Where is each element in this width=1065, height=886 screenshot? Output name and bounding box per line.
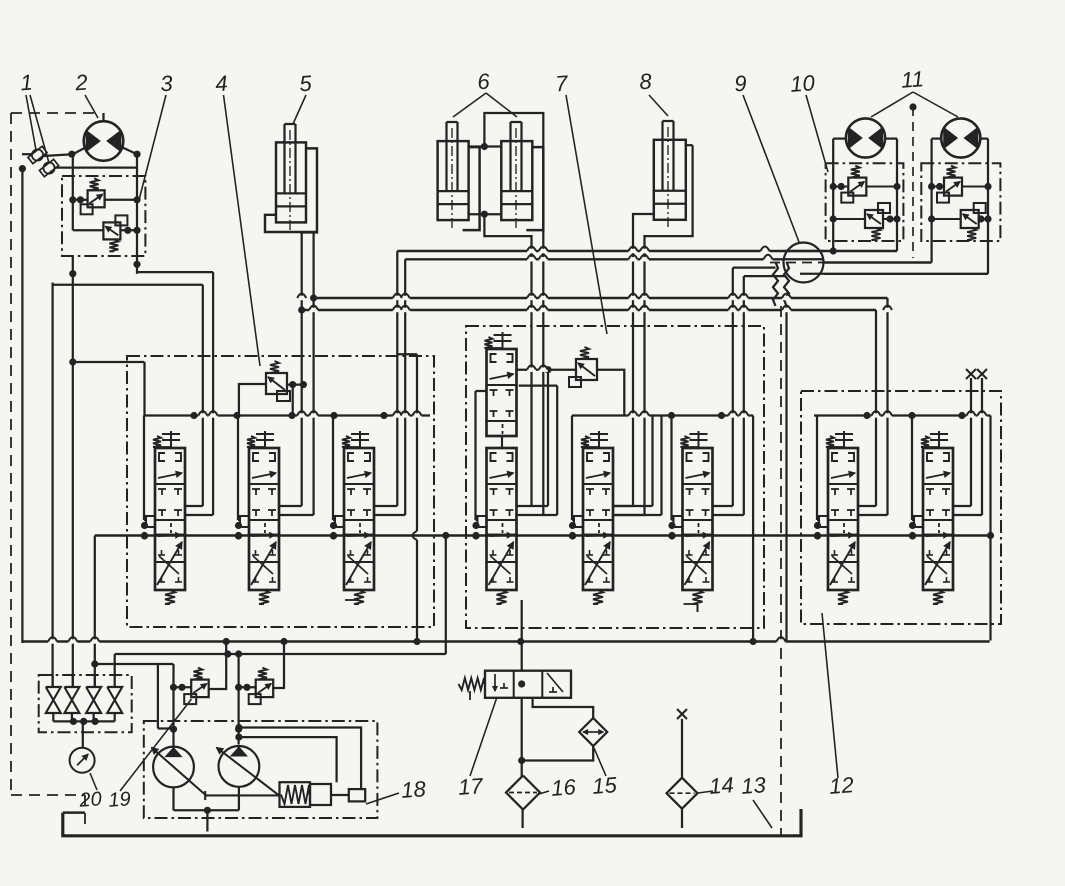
svg-text:18: 18	[400, 776, 427, 803]
svg-text:2: 2	[73, 70, 88, 96]
svg-text:15: 15	[591, 772, 618, 799]
svg-text:13: 13	[740, 772, 767, 799]
svg-text:19: 19	[108, 788, 132, 811]
svg-text:20: 20	[78, 788, 103, 812]
svg-text:16: 16	[550, 774, 577, 801]
svg-text:12: 12	[828, 772, 854, 799]
svg-text:11: 11	[900, 66, 925, 93]
svg-text:17: 17	[457, 773, 484, 800]
svg-text:9: 9	[733, 71, 747, 97]
svg-text:14: 14	[708, 772, 734, 799]
svg-text:4: 4	[214, 71, 228, 97]
svg-text:10: 10	[789, 70, 816, 97]
svg-text:1: 1	[19, 70, 33, 96]
